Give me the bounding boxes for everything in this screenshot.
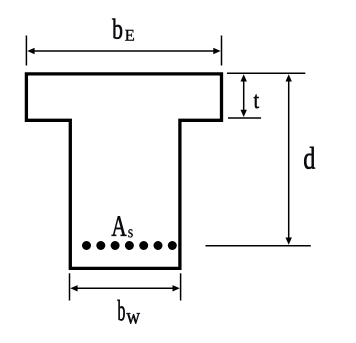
dimension b_E arrow line [31,50,217,52]
rebar dot 7 [168,241,177,250]
rebar dot 4 [125,241,134,250]
rebar dot 5 [139,241,148,250]
dimension t top reference line [227,72,305,74]
rebar dot 1 [82,241,91,250]
dimension d arrowhead down [286,238,292,245]
dimension b_E arrowhead left [27,48,34,54]
label t [254,95,259,109]
label b_w letter b [117,300,124,321]
dimension b_w extension line left [69,273,71,300]
label A_s subscript s [128,229,132,237]
T-beam cross-section outline [26,74,221,269]
dimension t arrowhead up [241,74,247,81]
dimension d arrow line [288,77,290,242]
dimension b_E extension line right [221,36,223,66]
label d [304,147,315,169]
rebar dot 6 [154,241,163,250]
dimension d arrowhead up [286,74,292,81]
label b_w subscript w [126,313,140,324]
dimension b_E arrowhead right [213,48,220,54]
dimension t arrowhead down [241,110,247,117]
dimension d bottom reference line [206,245,311,247]
rebar dot 3 [111,241,120,250]
label b_E subscript E [125,30,134,41]
rebar dot 2 [96,241,105,250]
dimension b_w arrow line [74,287,176,289]
dimension b_E extension line left [25,36,27,66]
dimension t arrow line [243,77,245,114]
label A_s letter A [112,216,127,235]
dimension t bottom reference line [228,117,261,119]
dimension b_w arrowhead right [173,285,180,291]
label b_E letter b [112,19,122,39]
dimension b_w arrowhead left [70,285,77,291]
dimension b_w extension line right [180,273,182,300]
